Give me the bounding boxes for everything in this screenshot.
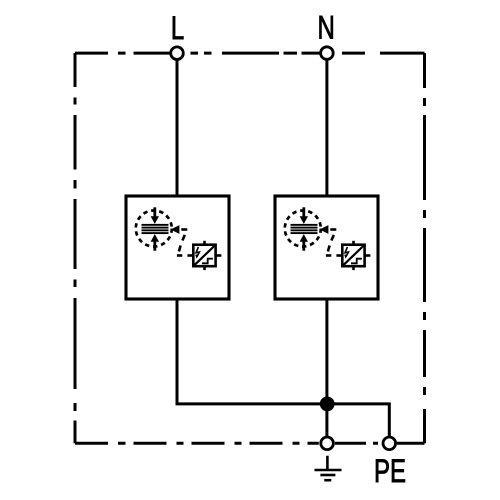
svg-text:PE: PE bbox=[374, 452, 406, 488]
svg-text:N: N bbox=[318, 9, 335, 45]
svg-text:L: L bbox=[171, 9, 184, 45]
